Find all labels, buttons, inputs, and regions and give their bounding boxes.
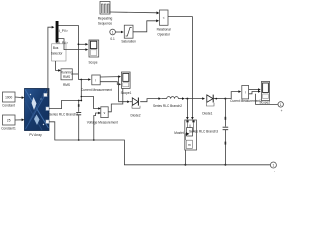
- input capacitor series RLC branch1: [76, 100, 81, 141]
- wire branch to voltage measurement plus: [81, 97, 99, 109]
- current measurement1 block: [242, 86, 249, 99]
- svg-text:Diode1: Diode1: [202, 112, 212, 116]
- svg-text:Scope2: Scope2: [259, 101, 270, 105]
- svg-text:Curent Measurement1: Curent Measurement1: [230, 99, 262, 103]
- wire tee down to diode2: [119, 77, 128, 102]
- svg-text:1000: 1000: [5, 96, 12, 100]
- svg-text:Constant: Constant: [2, 104, 15, 108]
- svg-text:Sequence: Sequence: [98, 22, 113, 26]
- wire current measurement1 to scope2 (two): [249, 89, 259, 91]
- svg-text:<: <: [163, 16, 165, 20]
- svg-text:Operator: Operator: [157, 33, 171, 37]
- wire mosfet source to bottom rail: [184, 150, 186, 165]
- constant1 25 block: [3, 115, 16, 125]
- svg-text:Repeating: Repeating: [98, 17, 113, 21]
- current measurement block: [92, 75, 100, 85]
- wire voltage measurement to scope1 bottom: [108, 88, 123, 111]
- bus selector block (black bar): [56, 21, 59, 43]
- svg-text:Mosfet: Mosfet: [174, 131, 184, 135]
- mosfet block: [185, 120, 197, 150]
- relational operator block: [160, 10, 169, 25]
- scope2 block: [261, 82, 269, 101]
- svg-text:Scope1: Scope1: [121, 91, 132, 95]
- svg-text:25: 25: [7, 119, 11, 123]
- node junction: [78, 43, 80, 45]
- output port 1: [278, 102, 283, 107]
- wire bus selector out1 down to scope / RMS column: [59, 26, 79, 80]
- running RMS block: [61, 69, 73, 80]
- wire current measurement i out to scope1 input2: [100, 82, 119, 85]
- wire PV plus output jog to rail: [49, 101, 81, 109]
- voltage measurement block: [101, 107, 108, 118]
- scope block: [89, 40, 99, 57]
- repeating sequence block: [100, 2, 110, 15]
- wire PV m output to bus selector: [47, 27, 52, 95]
- diode2: [130, 98, 140, 109]
- output capacitor branch (series RLC branch3): [223, 99, 229, 166]
- wire diode1 to output node: [213, 98, 225, 100]
- svg-text:1: 1: [273, 164, 275, 168]
- svg-text:Series RLC Branch2: Series RLC Branch2: [153, 104, 182, 108]
- wire saturation to relational operator: [133, 21, 157, 32]
- wire constant1 to PV T input: [15, 119, 23, 121]
- svg-text:Voltage Measurement: Voltage Measurement: [87, 121, 118, 125]
- svg-text:Relational: Relational: [157, 28, 171, 32]
- wire diode2 to series RLC branch2: [140, 99, 159, 102]
- svg-text:-: -: [274, 170, 275, 174]
- wire branch to scope input 1: [78, 43, 86, 45]
- svg-text:+: +: [281, 109, 283, 113]
- svg-text:Saturation: Saturation: [121, 40, 136, 44]
- svg-text:Series RLC Branch1: Series RLC Branch1: [49, 112, 78, 116]
- svg-text:PV Array: PV Array: [29, 133, 42, 137]
- wire inductor to diode1 with mosfet tap: [185, 98, 203, 100]
- output port 2: [270, 162, 276, 168]
- svg-text:Selector: Selector: [51, 52, 64, 56]
- svg-text:Scope: Scope: [88, 61, 97, 65]
- svg-text:<I_PV>: <I_PV>: [57, 29, 68, 33]
- PV array block: [25, 89, 50, 131]
- svg-text:Current Measurement: Current Measurement: [81, 88, 112, 92]
- diode1: [206, 95, 214, 106]
- wire bus selector out2 to scope input 2: [59, 39, 87, 50]
- svg-text:Diode2: Diode2: [130, 114, 140, 118]
- svg-text:1: 1: [112, 30, 114, 34]
- bus selector label box: [51, 44, 66, 61]
- wire PV minus to bottom rail: [49, 122, 270, 165]
- wire repeating sequence to relational operator: [110, 11, 158, 14]
- svg-text:m: m: [188, 143, 191, 147]
- scope1 block: [122, 72, 131, 88]
- svg-text:Constant1: Constant1: [1, 127, 16, 131]
- wire running RMS output up to node: [72, 73, 78, 75]
- svg-text:0.1: 0.1: [110, 37, 115, 41]
- wire riser from PV plus rail to current measurement: [80, 80, 82, 101]
- constant 1000 block: [3, 92, 16, 102]
- wire relational operator to mosfet gate: [168, 17, 192, 118]
- constant 0.1 round block: [110, 29, 116, 35]
- wire current measurement out to scope1 and power tee: [100, 76, 119, 78]
- svg-text:RMS: RMS: [63, 75, 70, 79]
- wire constant to PV Ir input: [15, 96, 23, 99]
- series RLC branch2 (inductor): [161, 97, 185, 100]
- wire output node up to current measurement1: [225, 92, 239, 99]
- wire bus selector to running RMS: [56, 61, 60, 70]
- wire physical out down to port1: [256, 94, 278, 105]
- svg-text:Bus: Bus: [53, 46, 59, 50]
- wire 0.1 to saturation: [115, 31, 121, 33]
- wire node to current measurement input: [78, 79, 89, 81]
- junction on current measurement feed: [80, 79, 82, 81]
- svg-text:1: 1: [280, 103, 282, 107]
- wire mosfet drain tap down: [186, 99, 188, 118]
- svg-text:Series RLC Branch3: Series RLC Branch3: [189, 129, 218, 133]
- svg-text:RMS: RMS: [63, 83, 70, 87]
- wire bottom rail to voltage measurement minus: [94, 113, 99, 140]
- saturation block: [124, 25, 133, 38]
